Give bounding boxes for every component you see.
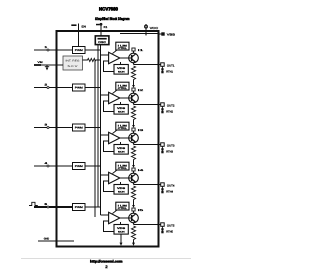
wire to bus [85, 165, 101, 167]
resistor R6 [131, 226, 135, 241]
resistor R3 [131, 106, 135, 121]
svg-text:PWM: PWM [75, 127, 83, 130]
svg-text:EN: EN [82, 25, 86, 28]
block diagram outer border [57, 31, 159, 247]
wire sense stub [120, 142, 122, 145]
current limit box U1A [116, 42, 129, 50]
wire amp input [101, 174, 109, 176]
svg-text:I1: I1 [138, 49, 145, 52]
svg-text:VDS: VDS [117, 67, 126, 70]
svg-text:PWM: PWM [75, 206, 83, 209]
svg-text:VDS: VDS [117, 187, 126, 190]
monitor box U2B [114, 105, 128, 115]
resistor R2 [131, 66, 135, 81]
wire OUT5 [134, 224, 161, 226]
svg-text:MON: MON [118, 70, 125, 73]
wire box leader [113, 170, 118, 174]
svg-text:CTRL: CTRL [118, 127, 128, 130]
svg-text:VM: VM [38, 61, 43, 64]
svg-text:OUT3: OUT3 [167, 144, 175, 147]
ground arrow A [120, 243, 123, 246]
wire box leader [113, 130, 118, 134]
svg-text:CTRL: CTRL [118, 207, 128, 210]
monitor box U4B [114, 185, 128, 195]
pwm input filter U5 [73, 163, 86, 170]
wire OUT3 [134, 144, 161, 146]
wire chain [133, 121, 135, 126]
pwm input filter U6 [73, 204, 86, 211]
pwm input filter U2 [73, 47, 86, 54]
output pins OUT5 [161, 223, 175, 234]
wire to bus [85, 127, 101, 129]
monitor box U5B [114, 225, 128, 235]
current limit box U4A [116, 162, 129, 170]
wire bus B [97, 45, 99, 207]
svg-text:PWM: PWM [75, 49, 83, 52]
wire amp input [101, 54, 109, 56]
node D3 [132, 128, 145, 133]
output pins OUT3 [161, 143, 175, 154]
svg-text:RTN3: RTN3 [166, 150, 173, 153]
wire box leader [113, 210, 118, 214]
wire to ground (chain) [133, 241, 135, 244]
regulator VREG [63, 56, 83, 70]
wire OUT1 [134, 64, 161, 66]
wire box leader [113, 90, 118, 94]
pin IN1 (left) [34, 46, 73, 51]
pin VBB (right) [159, 32, 176, 36]
wire sense stub [120, 182, 122, 185]
pin EN (top) [71, 24, 86, 47]
transistor Q3 [120, 133, 139, 144]
svg-text:R1: R1 [104, 26, 108, 29]
wire OUT4 [134, 184, 161, 186]
current limit box U5A [116, 202, 129, 210]
svg-text:RTN2: RTN2 [166, 110, 173, 113]
svg-text:CTRL: CTRL [118, 87, 128, 90]
pin VM [34, 61, 63, 70]
svg-text:5: 5 [45, 203, 49, 206]
monitor box U3B [114, 145, 128, 155]
svg-text:5.0 V: 5.0 V [68, 65, 79, 68]
transistor Q2 [120, 93, 139, 104]
svg-text:VCC: VCC [150, 26, 159, 30]
output pins OUT2 [161, 103, 175, 114]
svg-text:OUT1: OUT1 [167, 64, 175, 67]
svg-text:I3: I3 [138, 129, 145, 132]
wire amp input [101, 94, 109, 96]
resistor RT [83, 58, 101, 61]
svg-text:VBB: VBB [167, 33, 175, 37]
svg-text:VDS: VDS [117, 227, 126, 230]
svg-text:2: 2 [45, 83, 49, 86]
pin IN3 (left) [34, 123, 73, 128]
pwm input filter U4 [73, 124, 86, 131]
pin GND (bottom left) [38, 238, 74, 241]
svg-text:4: 4 [45, 162, 49, 165]
wire feedback [104, 221, 115, 232]
svg-text:MON: MON [118, 150, 125, 153]
wire sense stub [120, 222, 122, 225]
current limit box U3A [116, 122, 129, 130]
driver amp A4 [109, 172, 120, 183]
wire bus C [100, 45, 102, 215]
transistor Q5 [120, 213, 139, 224]
wire sense stub [120, 102, 122, 105]
pin IN5 (left) [34, 203, 73, 208]
wire to bus [85, 87, 101, 89]
wire feedback [104, 61, 115, 72]
svg-text:I2: I2 [138, 89, 145, 92]
wire chain [133, 201, 135, 206]
resistor R4 [131, 146, 135, 161]
transistor Q1 [120, 53, 139, 64]
svg-text:GND: GND [44, 238, 50, 241]
svg-text:Simplified Block Diagram: Simplified Block Diagram [95, 17, 130, 21]
svg-text:RTN5: RTN5 [166, 230, 173, 233]
current arrow [132, 85, 135, 88]
svg-text:CTRL: CTRL [118, 167, 128, 170]
pin VCC (top) [145, 24, 159, 36]
node D2 [132, 88, 145, 93]
resistor R5 [131, 186, 135, 201]
wire to bus [85, 49, 101, 51]
wire chain [133, 161, 135, 166]
output pins OUT1 [161, 63, 175, 74]
wire feedback [104, 141, 115, 152]
wire amp input [101, 214, 109, 216]
wire feedback [104, 181, 115, 192]
node D4 [132, 168, 145, 173]
node D5 [132, 208, 145, 213]
node D1 [132, 48, 145, 53]
svg-text:CTRL: CTRL [118, 47, 128, 50]
svg-text:RTN1: RTN1 [166, 70, 173, 73]
current arrow [132, 165, 135, 168]
current limit box U2A [116, 82, 129, 90]
svg-text:PWM: PWM [75, 165, 83, 168]
monitor box U1B [114, 65, 128, 75]
driver amp A5 [109, 212, 120, 223]
transistor Q4 [120, 173, 139, 184]
wire amp input [101, 134, 109, 136]
wire to bus [85, 206, 101, 208]
input waveform glyph [29, 202, 38, 205]
wire box leader [113, 50, 118, 54]
pwm input filter U3 [73, 84, 86, 91]
svg-text:OUT5: OUT5 [167, 224, 175, 227]
wire OUT2 [134, 104, 161, 106]
driver amp A1 [109, 52, 120, 63]
wire bus A [94, 60, 96, 217]
wire VBB rail [120, 33, 158, 35]
svg-text:VDS: VDS [117, 107, 126, 110]
svg-text:PWM: PWM [75, 87, 83, 90]
wire feedback [104, 101, 115, 112]
wire chain [133, 81, 135, 86]
svg-text:I4: I4 [138, 169, 145, 172]
oscillator U1 [95, 36, 109, 45]
svg-text:2: 2 [105, 265, 107, 269]
svg-text:OSC: OSC [98, 41, 106, 44]
pin R-OSC (top) [96, 23, 108, 36]
output pins OUT4 [161, 183, 175, 194]
svg-text:INT. REG: INT. REG [66, 60, 80, 63]
svg-text:1: 1 [45, 46, 49, 49]
svg-text:OUT2: OUT2 [167, 104, 175, 107]
svg-text:3: 3 [45, 123, 49, 126]
current arrow [132, 125, 135, 128]
svg-text:MON: MON [118, 190, 125, 193]
svg-text:VDS: VDS [117, 147, 126, 150]
svg-text:NCV7680: NCV7680 [99, 6, 118, 11]
pin IN2 (left) [34, 83, 73, 88]
wire to ground (monitor) [120, 234, 122, 243]
svg-text:I5: I5 [138, 209, 145, 212]
svg-text:MON: MON [118, 230, 125, 233]
pin IN4 (left) [34, 162, 73, 167]
svg-text:OUT4: OUT4 [167, 184, 175, 187]
wire sense stub [120, 62, 122, 65]
footer separator [21, 257, 191, 259]
current arrow [132, 205, 135, 208]
ground arrow B [132, 243, 135, 246]
driver amp A3 [109, 132, 120, 143]
svg-text:RTN4: RTN4 [166, 190, 173, 193]
svg-text:http://onsemi.com: http://onsemi.com [90, 259, 123, 263]
svg-text:MON: MON [118, 110, 125, 113]
driver amp A2 [109, 92, 120, 103]
